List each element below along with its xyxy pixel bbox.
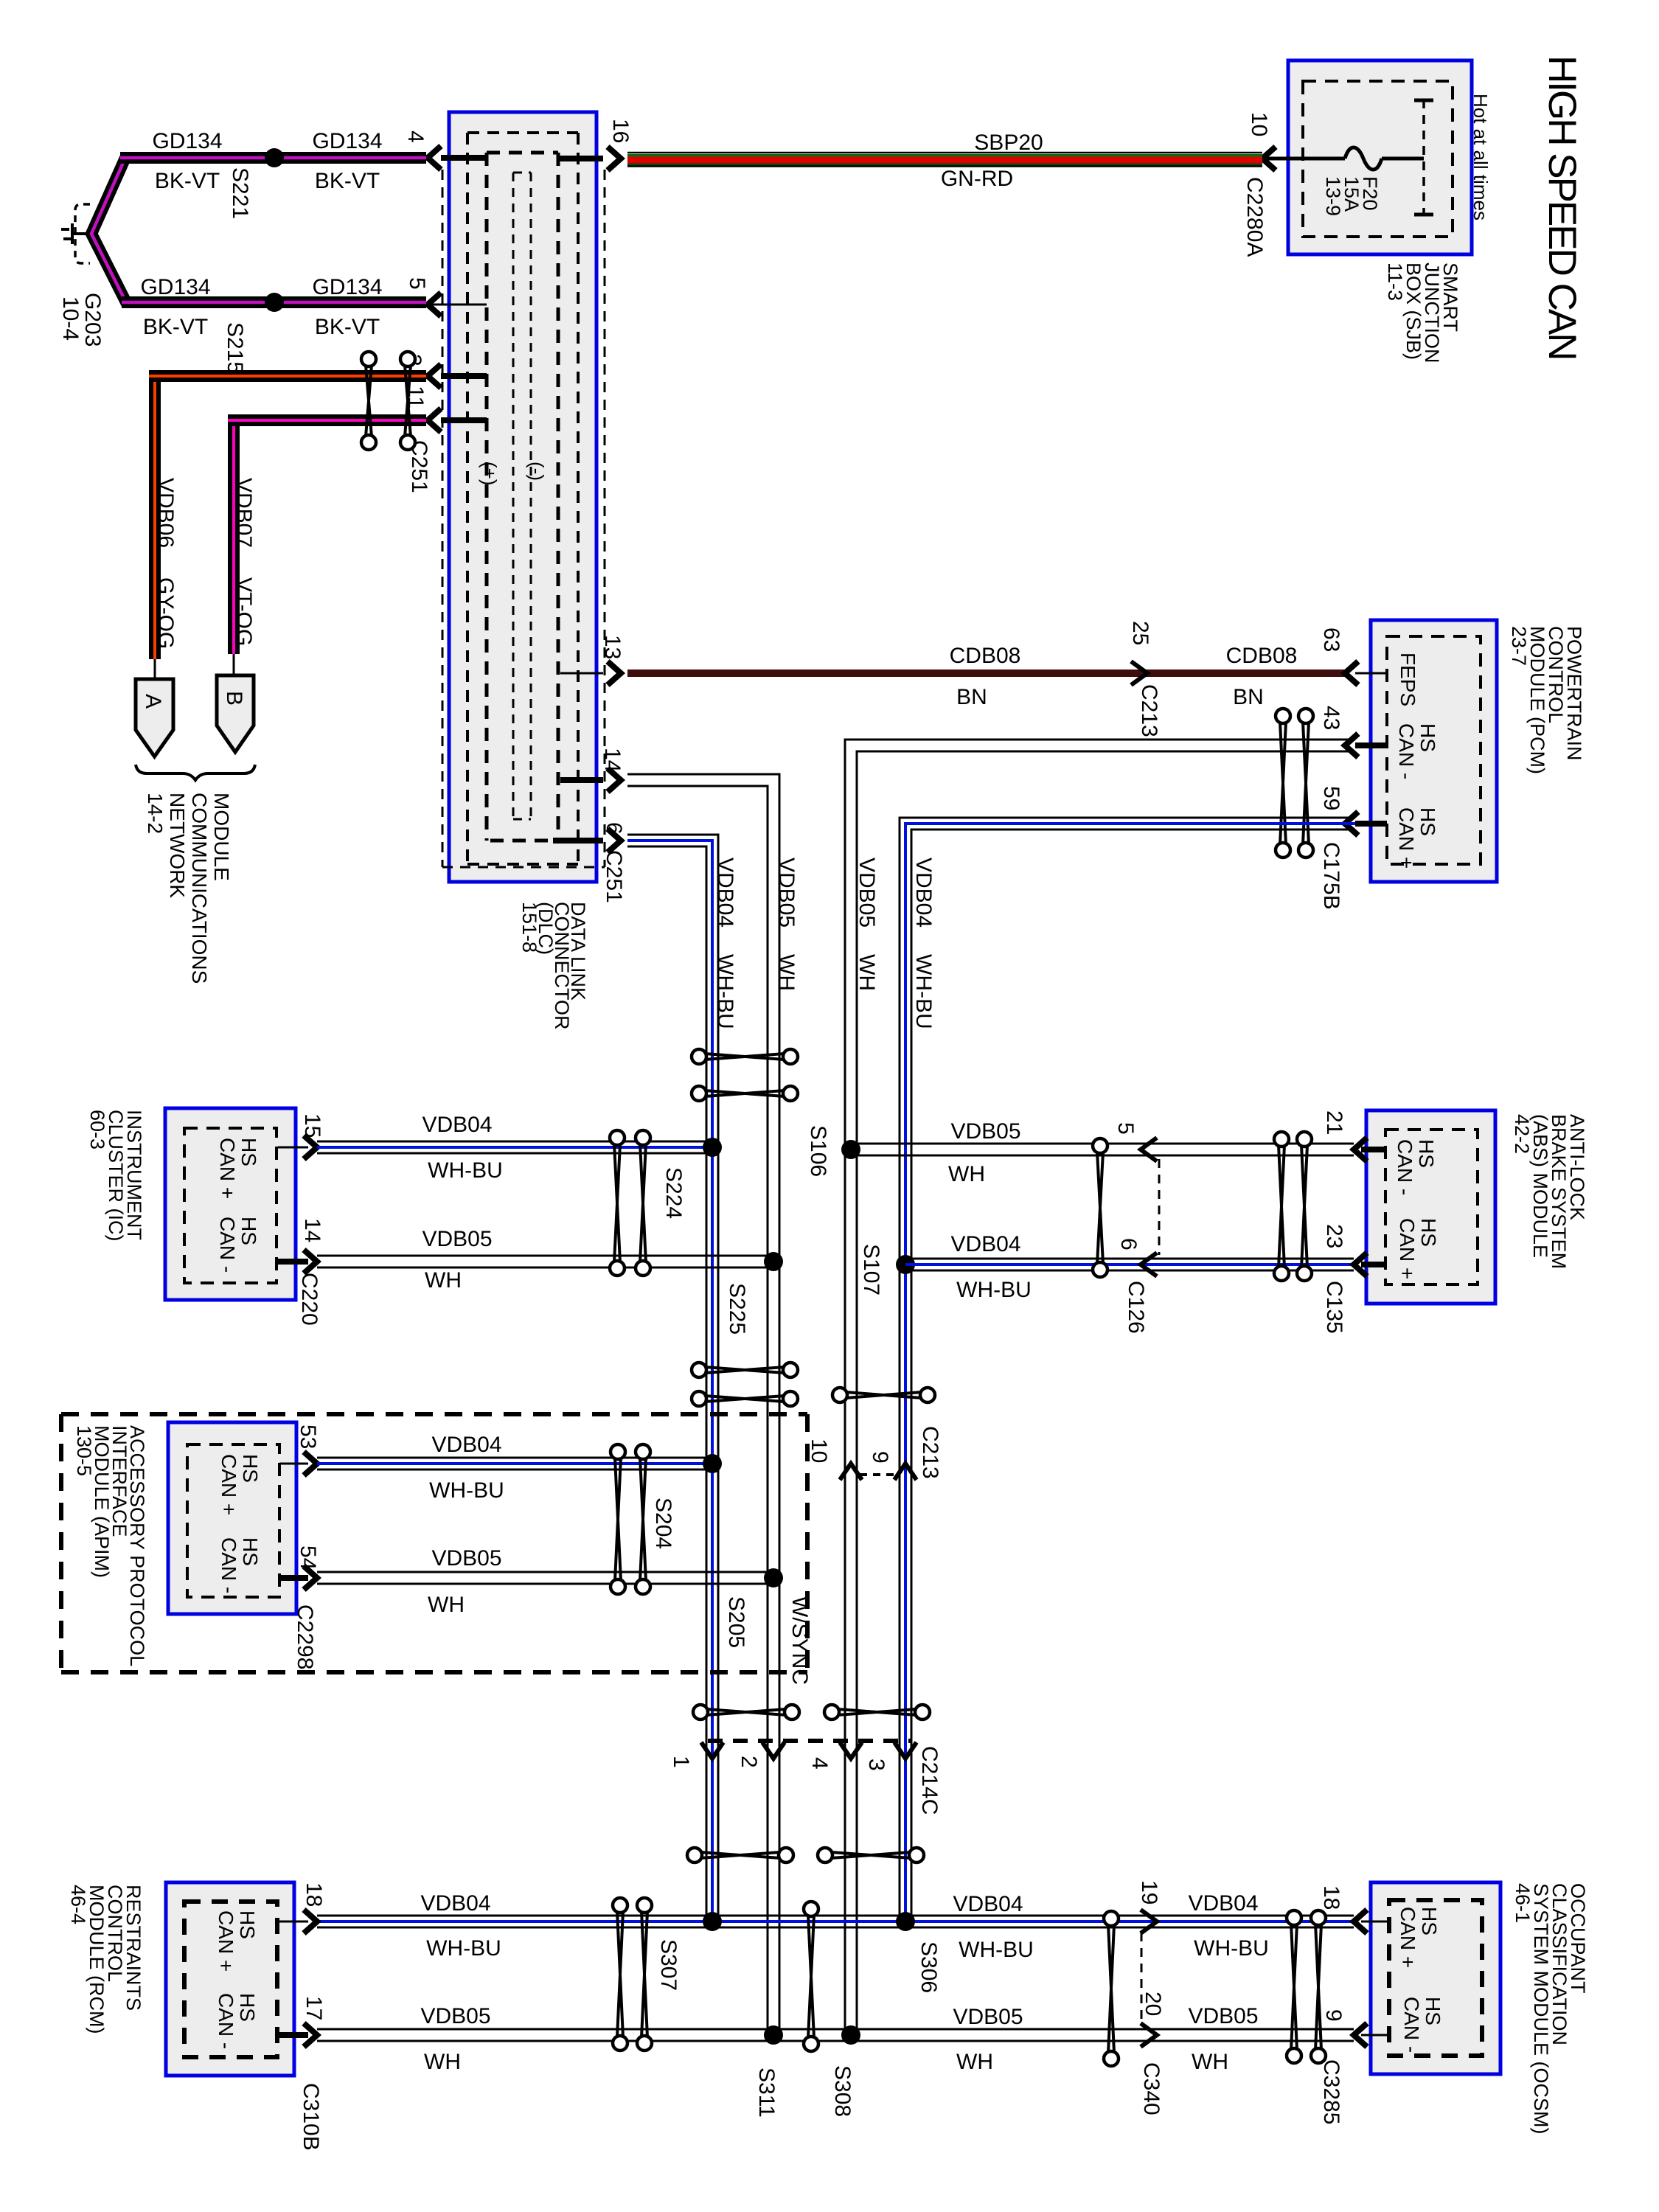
svg-text:10: 10 [807,1439,831,1463]
svg-text:VDB05: VDB05 [431,1546,501,1571]
svg-text:S215: S215 [223,322,247,374]
svg-text:WH-BU: WH-BU [428,1158,503,1183]
svg-text:(+): (+) [479,462,501,486]
svg-text:20: 20 [1141,1992,1165,2016]
svg-text:3: 3 [864,1759,888,1771]
svg-text:4: 4 [807,1757,832,1770]
svg-text:S308: S308 [830,2065,855,2117]
svg-text:S311: S311 [754,2067,779,2118]
svg-text:11-3: 11-3 [1384,262,1406,301]
svg-text:(-): (-) [526,462,548,481]
svg-text:4: 4 [403,131,428,143]
svg-text:GD134: GD134 [152,129,222,153]
svg-text:WH: WH [428,1593,465,1617]
svg-text:19: 19 [1137,1880,1161,1905]
svg-text:10-4: 10-4 [58,296,83,341]
svg-text:WH-BU: WH-BU [959,1938,1034,1962]
svg-text:151-8: 151-8 [518,902,540,953]
svg-text:GN-RD: GN-RD [941,167,1013,191]
svg-text:10: 10 [1247,112,1271,136]
svg-text:SBP20: SBP20 [974,131,1043,155]
svg-text:HS: HS [237,1138,260,1166]
svg-text:C2298: C2298 [293,1604,317,1669]
svg-text:14-2: 14-2 [144,793,167,834]
svg-text:43: 43 [1319,706,1343,730]
svg-text:HS: HS [236,1993,259,2022]
svg-text:CAN +: CAN + [1397,1907,1419,1968]
svg-text:HS: HS [237,1217,260,1245]
svg-text:VDB05: VDB05 [774,858,799,928]
svg-text:GY-OG: GY-OG [153,577,178,649]
svg-text:VDB04: VDB04 [950,1232,1020,1256]
svg-text:5: 5 [405,277,429,290]
svg-text:VDB05: VDB05 [1188,2004,1258,2028]
svg-text:CAN -: CAN - [215,1993,237,2049]
svg-text:C340: C340 [1139,2062,1164,2115]
svg-text:S106: S106 [806,1125,830,1177]
svg-text:VDB05: VDB05 [953,2005,1023,2029]
svg-text:HS: HS [1417,1218,1440,1247]
svg-text:A: A [141,694,165,709]
svg-text:S221: S221 [228,167,252,219]
svg-text:BK-VT: BK-VT [315,315,380,339]
svg-text:VDB04: VDB04 [713,858,737,928]
svg-text:17: 17 [302,1996,326,2020]
svg-text:CAN +: CAN + [1396,1218,1419,1279]
svg-text:BN: BN [1233,685,1264,709]
svg-text:BN: BN [956,685,987,709]
svg-text:VDB04: VDB04 [420,1891,490,1916]
svg-text:14: 14 [300,1218,324,1242]
svg-text:HS: HS [1422,1997,1444,2025]
svg-text:CAN -: CAN - [1394,1139,1416,1195]
svg-text:CAN -: CAN - [218,1537,240,1593]
svg-text:9: 9 [1321,2009,1346,2022]
svg-text:53: 53 [296,1425,320,1449]
svg-text:FEPS: FEPS [1397,653,1419,706]
svg-text:CAN -: CAN - [1395,723,1418,779]
svg-text:VDB04: VDB04 [431,1433,501,1457]
svg-text:B: B [222,691,246,706]
svg-text:WH: WH [424,2050,461,2074]
svg-text:14: 14 [600,748,625,772]
svg-text:GD134: GD134 [140,275,210,299]
svg-text:S225: S225 [725,1283,749,1335]
svg-text:130-5: 130-5 [73,1425,95,1476]
svg-text:S306: S306 [917,1941,941,1993]
svg-text:6: 6 [1116,1238,1141,1251]
svg-text:C213: C213 [918,1426,942,1479]
svg-text:VDB05: VDB05 [950,1119,1020,1144]
svg-text:C135: C135 [1322,1281,1346,1334]
svg-text:54: 54 [296,1545,320,1570]
svg-text:CAN -: CAN - [216,1217,239,1273]
svg-text:BK-VT: BK-VT [315,169,380,193]
svg-text:GD134: GD134 [312,275,382,299]
svg-text:VDB06: VDB06 [153,478,178,548]
svg-text:15: 15 [300,1113,324,1138]
svg-text:WH-BU: WH-BU [426,1936,501,1961]
svg-text:VDB05: VDB05 [420,2004,490,2028]
svg-text:S224: S224 [661,1167,686,1219]
svg-text:VDB07: VDB07 [232,478,256,548]
svg-text:CAN +: CAN + [218,1454,240,1515]
svg-text:23-7: 23-7 [1508,626,1530,666]
svg-text:VDB04: VDB04 [1188,1891,1258,1916]
svg-text:CAN +: CAN + [1395,807,1418,869]
svg-text:WH: WH [1192,2050,1228,2074]
svg-text:CAN +: CAN + [216,1138,239,1199]
svg-text:VDB04: VDB04 [911,858,936,928]
svg-text:HS: HS [1415,1139,1438,1168]
svg-text:WH: WH [425,1268,462,1293]
svg-text:WH: WH [774,954,799,991]
svg-text:2: 2 [737,1756,761,1768]
svg-text:9: 9 [868,1451,892,1464]
svg-text:13-9: 13-9 [1322,176,1344,216]
svg-text:HS: HS [1416,807,1439,836]
svg-text:23: 23 [1322,1224,1346,1248]
svg-text:HS: HS [239,1537,262,1566]
svg-text:5: 5 [1113,1122,1138,1135]
svg-text:42-2: 42-2 [1511,1114,1533,1154]
svg-text:CAN +: CAN + [215,1910,237,1972]
svg-text:C2280A: C2280A [1242,177,1267,257]
svg-text:C175B: C175B [1319,842,1343,910]
svg-text:25: 25 [1128,621,1152,645]
svg-text:CDB08: CDB08 [1226,644,1298,668]
svg-text:C310B: C310B [299,2083,323,2151]
svg-text:60-3: 60-3 [86,1110,108,1150]
svg-text:NETWORK: NETWORK [166,793,189,898]
svg-text:63: 63 [1319,627,1343,652]
svg-text:HIGH SPEED CAN: HIGH SPEED CAN [1540,55,1584,359]
svg-text:C251: C251 [602,850,626,903]
svg-text:S205: S205 [724,1596,748,1648]
svg-text:C214C: C214C [917,1746,942,1815]
svg-text:18: 18 [1319,1885,1343,1910]
svg-text:WH: WH [956,2050,993,2074]
svg-text:VT-OG: VT-OG [232,577,256,646]
svg-text:BK-VT: BK-VT [143,315,208,339]
svg-text:WH: WH [948,1162,985,1186]
svg-text:WH-BU: WH-BU [429,1478,504,1503]
svg-text:1: 1 [669,1756,693,1768]
svg-text:6: 6 [602,822,626,835]
svg-text:VDB04: VDB04 [422,1113,492,1137]
svg-text:W/SYNC: W/SYNC [787,1596,812,1685]
svg-text:C213: C213 [1137,684,1161,737]
svg-text:HS: HS [1418,1907,1441,1935]
svg-text:HS: HS [239,1454,262,1483]
svg-text:S307: S307 [656,1939,681,1991]
svg-text:S204: S204 [651,1498,675,1549]
svg-text:WH-BU: WH-BU [1194,1936,1269,1961]
svg-text:Hot at all times: Hot at all times [1470,94,1492,220]
svg-text:CDB08: CDB08 [950,644,1021,668]
svg-text:18: 18 [302,1882,326,1907]
svg-text:VDB05: VDB05 [422,1227,492,1251]
svg-text:21: 21 [1322,1110,1346,1135]
svg-text:HS: HS [236,1910,259,1939]
svg-text:VDB04: VDB04 [953,1892,1023,1916]
svg-text:WH: WH [855,954,879,991]
svg-text:C220: C220 [297,1273,321,1326]
svg-text:S107: S107 [859,1244,883,1295]
svg-text:C3285: C3285 [1319,2059,1343,2124]
svg-text:C126: C126 [1124,1281,1148,1334]
svg-text:BK-VT: BK-VT [155,169,220,193]
svg-text:CAN -: CAN - [1400,1997,1423,2053]
svg-text:16: 16 [608,119,633,143]
svg-text:G203: G203 [80,293,105,347]
svg-text:46-4: 46-4 [67,1885,89,1924]
svg-text:GD134: GD134 [312,129,382,153]
svg-text:VDB05: VDB05 [855,858,879,928]
svg-text:WH-BU: WH-BU [956,1278,1032,1302]
svg-text:MODULE: MODULE [210,793,233,881]
svg-text:HS: HS [1416,723,1439,752]
svg-text:COMMUNICATIONS: COMMUNICATIONS [188,793,211,984]
svg-text:WH-BU: WH-BU [911,954,936,1029]
svg-text:13: 13 [600,635,625,659]
svg-text:46-1: 46-1 [1512,1883,1534,1923]
svg-text:WH-BU: WH-BU [713,954,737,1029]
svg-text:59: 59 [1319,786,1343,810]
